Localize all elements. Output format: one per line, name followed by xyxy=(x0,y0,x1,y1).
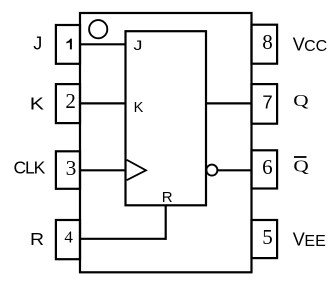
svg-text:6: 6 xyxy=(262,155,273,179)
pin 5 box xyxy=(252,220,278,258)
svg-text:7: 7 xyxy=(262,91,272,112)
Qbar overline xyxy=(294,156,307,158)
svg-text:J: J xyxy=(133,38,142,54)
svg-text:V: V xyxy=(293,229,305,249)
svg-text:EE: EE xyxy=(304,233,325,250)
Qbar inversion bubble xyxy=(206,165,217,176)
pin 6 box xyxy=(252,150,278,188)
svg-text:K: K xyxy=(30,94,44,114)
wire Q to pin7 xyxy=(206,102,252,104)
pin 8 box xyxy=(252,25,278,64)
pin-1 indicator circle xyxy=(89,20,107,38)
svg-text:K: K xyxy=(134,100,144,116)
wire pin1 J xyxy=(80,43,126,45)
wire pin4 R horizontal xyxy=(80,238,166,240)
JK flip-flop inner box xyxy=(126,31,207,205)
IC body U1 (8-pin DIP outline) xyxy=(80,13,252,272)
svg-text:Q: Q xyxy=(293,92,308,111)
wire Qbar bubble to pin6 xyxy=(218,169,252,171)
wire pin2 K xyxy=(80,102,126,104)
svg-text:V: V xyxy=(293,34,305,54)
pin 3 box xyxy=(56,151,80,189)
svg-text:J: J xyxy=(33,33,42,53)
pin 2 box xyxy=(56,84,80,123)
pin 4 box xyxy=(56,220,80,259)
svg-text:Q: Q xyxy=(293,157,308,176)
pin 7 box xyxy=(252,84,278,124)
svg-text:8: 8 xyxy=(262,30,273,54)
wire pin3 CLK xyxy=(80,169,126,171)
svg-text:R: R xyxy=(30,229,44,249)
svg-text:3: 3 xyxy=(66,156,77,180)
svg-text:2: 2 xyxy=(65,89,76,113)
clock edge triangle xyxy=(127,160,146,180)
wire pin4 R vertical xyxy=(165,205,167,240)
svg-text:4: 4 xyxy=(64,228,73,247)
svg-text:CC: CC xyxy=(304,38,327,55)
svg-text:5: 5 xyxy=(262,225,273,249)
pin 1 box xyxy=(56,25,80,64)
svg-text:CLK: CLK xyxy=(14,157,46,177)
pin 1 number xyxy=(66,39,72,50)
svg-text:R: R xyxy=(162,189,173,206)
